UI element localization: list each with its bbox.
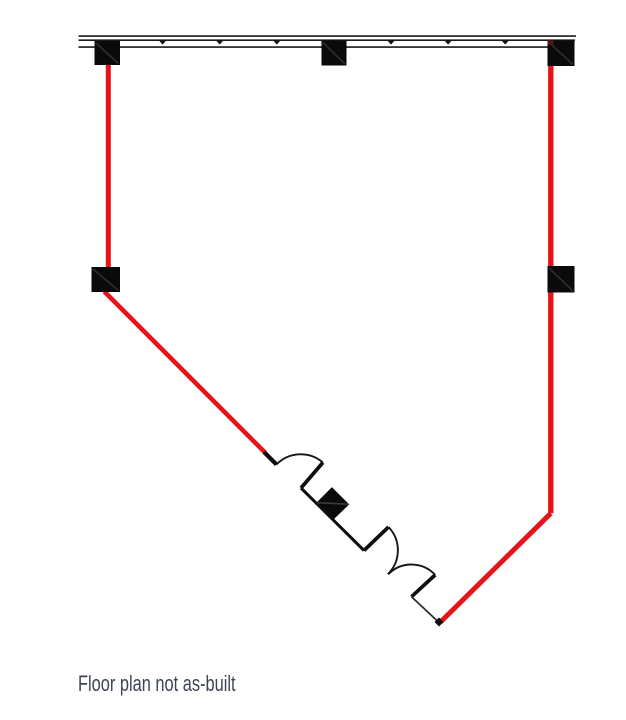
column C4 left-middle [92,267,121,292]
door D2 leaf [364,527,389,551]
column C6 rotated diamond [317,487,350,519]
column C3 top-right [548,41,575,67]
wall left red vertical [106,52,111,280]
node corner blob [435,618,444,627]
door D3 leaf [412,575,436,597]
column C5 right-middle [548,266,575,293]
caption text [78,671,236,696]
wall thin black segment [412,597,440,623]
door D1 leaf [301,463,323,489]
top wall middle line [79,39,576,41]
top wall tick marks [159,41,566,45]
column C1 top-left [95,41,121,65]
door jamb segment [264,452,277,465]
top wall lower line [79,46,575,48]
door D1 swing arc [277,454,323,464]
top wall upper line [79,35,577,37]
node red corner glint on C3 [548,41,554,45]
wall right red diagonal [441,513,551,622]
column C2 top-middle [322,41,347,66]
wall left red diagonal [104,292,264,453]
wire [79,36,577,47]
wall right red vertical [548,48,553,513]
door D3 swing arc [389,565,436,575]
door D2 swing arc [388,527,398,574]
wall black diagonal segment [301,488,364,551]
